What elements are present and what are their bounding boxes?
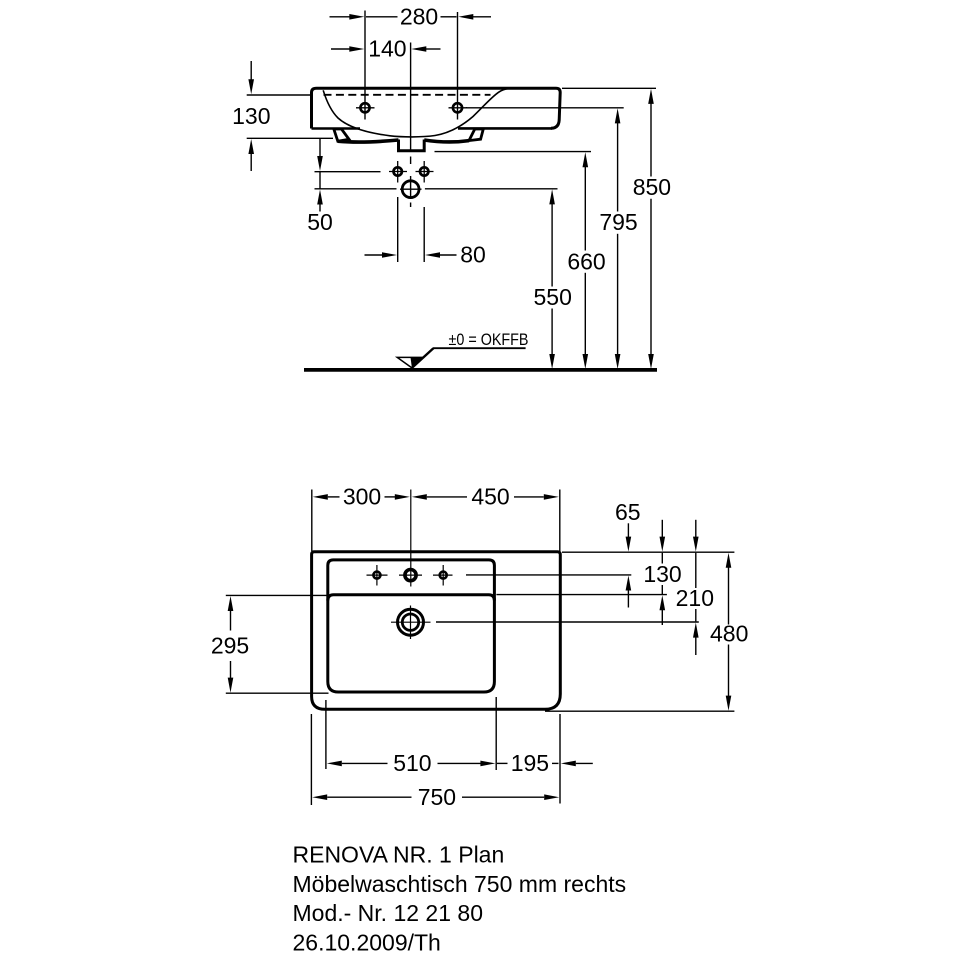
svg-text:850: 850 [633,174,671,200]
extension line bowl right (plan bottom) [495,697,497,770]
title line 3: model number [293,900,484,926]
dimension 130 (front elevation) [232,61,270,171]
dimension 750 (overall width) [312,784,559,810]
bowl edge reference line (plan left side) [226,594,327,596]
datum leader line [412,348,526,368]
extension line plan right edge [559,490,561,552]
right mounting tab [469,129,483,141]
dimension 130 (top edge to bowl edge, plan) [643,520,681,625]
svg-text:RENOVA NR. 1 Plan: RENOVA NR. 1 Plan [293,842,505,868]
extension line left fixing hole [397,197,399,262]
dimension 850 (rim height) [633,89,671,369]
bottom edge extension line (plan right side) [545,710,734,712]
dimension 550 (drain height) [534,189,572,369]
title line 4: date [293,929,441,955]
svg-text:795: 795 [599,209,637,235]
svg-text:Möbelwaschtisch 750 mm rechts: Möbelwaschtisch 750 mm rechts [293,871,627,897]
dimension 210 (top edge to drain center) [676,520,714,655]
svg-text:210: 210 [676,585,714,611]
svg-text:50: 50 [307,209,333,235]
extension line left tap hole [364,11,366,120]
bowl silhouette curve [323,88,511,137]
left mounting tab [334,129,349,141]
svg-text:750: 750 [418,784,456,810]
dimension 195 (bowl to right edge) [497,750,593,776]
center tap hole (plan view) [399,570,422,581]
floor line [304,368,657,372]
basin rim line (plan view) [328,560,495,692]
drain hole (plan view) [391,606,431,640]
center line (plan view) [410,490,412,587]
washbasin body outline (front elevation) [312,88,561,128]
tap hole reference line (plan right side) [466,574,631,576]
floor level datum symbol [397,357,423,368]
dimension 140 (tap hole to center) [331,36,441,62]
svg-text:Mod.- Nr. 12 21 80: Mod.- Nr. 12 21 80 [293,900,484,926]
svg-text:195: 195 [511,750,549,776]
drain box reference line (660 reference) [435,151,592,153]
right fixing hole (front elevation) [416,161,434,183]
drain reference line (550 reference) [425,188,558,190]
dimension 80 (fixing hole spacing) [365,242,486,268]
dimension 280 (tap hole spacing) [330,4,492,30]
drain hole (front elevation) [400,181,422,198]
title line 1: product name [293,842,505,868]
dimension 130 reference line lower (bracket level) [247,137,333,139]
svg-text:65: 65 [615,499,641,525]
svg-text:300: 300 [343,484,381,510]
drain reference line (plan right side) [436,621,699,623]
svg-text:130: 130 [643,561,681,587]
dimension 795 (tap hole height) [599,108,637,369]
bowl front edge line (plan view) [328,595,495,601]
svg-text:26.10.2009/Th: 26.10.2009/Th [293,929,441,955]
drain box (front elevation) [399,140,425,151]
dimension 130 reference line upper (rim level) [247,94,312,96]
dimension 65 (top edge to tap holes) [615,499,641,608]
washbasin outer outline (plan view) [312,552,561,710]
extension line right fixing hole [423,207,425,262]
extension line outer right (plan bottom) [559,714,561,804]
extension line outer left (plan bottom) [310,714,312,805]
svg-text:80: 80 [460,242,486,268]
datum label ±0 = OKFFB [449,331,529,349]
hidden rim edge (dashed line) [324,94,491,96]
bracket bottom edge (left of drain box) [338,140,399,142]
dimension 50 (front elevation) [307,139,333,235]
svg-text:550: 550 [534,284,572,310]
svg-text:660: 660 [567,248,605,274]
tap hole reference line (795 reference) [466,107,624,109]
right tap hole (plan view) [433,565,453,586]
right tap hole (front elevation) [449,103,468,112]
svg-text:±0 = OKFFB: ±0 = OKFFB [449,331,529,349]
svg-text:295: 295 [211,632,249,658]
bowl bottom reference line (plan left side) [226,692,329,694]
top edge extension line (plan right side) [562,551,734,553]
dimension 510 (bowl width) [327,750,496,776]
extension line bowl left (plan bottom) [325,700,327,769]
svg-text:130: 130 [232,103,270,129]
svg-text:510: 510 [393,750,431,776]
dimension 300 (left edge to tap center) [313,484,410,510]
vertical center line (front elevation) [410,43,412,208]
svg-text:280: 280 [400,4,438,30]
dimension 480 (overall depth) [710,553,748,711]
bracket bottom edge (right of drain box) [424,140,469,142]
dimension 295 (bowl depth) [211,596,249,693]
svg-text:480: 480 [710,621,748,647]
dimension 450 (tap center to right edge) [412,484,559,510]
title line 2: product description [293,871,627,897]
left fixing hole (front elevation) [389,161,407,183]
extension line right tap hole [457,12,459,120]
bowl edge reference line (plan right side) [496,594,667,596]
left tap hole (plan view) [367,565,388,586]
left tap hole (front elevation) [356,103,375,112]
svg-text:140: 140 [368,36,406,62]
svg-text:450: 450 [471,484,509,510]
extension line plan left edge [311,490,313,552]
dimension 50 reference line lower (drain level) [315,188,397,190]
dimension 50 reference line upper (fixing holes level) [315,171,381,173]
top edge extension line (850 reference) [562,87,656,89]
dimension 660 (fixing height) [567,152,605,369]
